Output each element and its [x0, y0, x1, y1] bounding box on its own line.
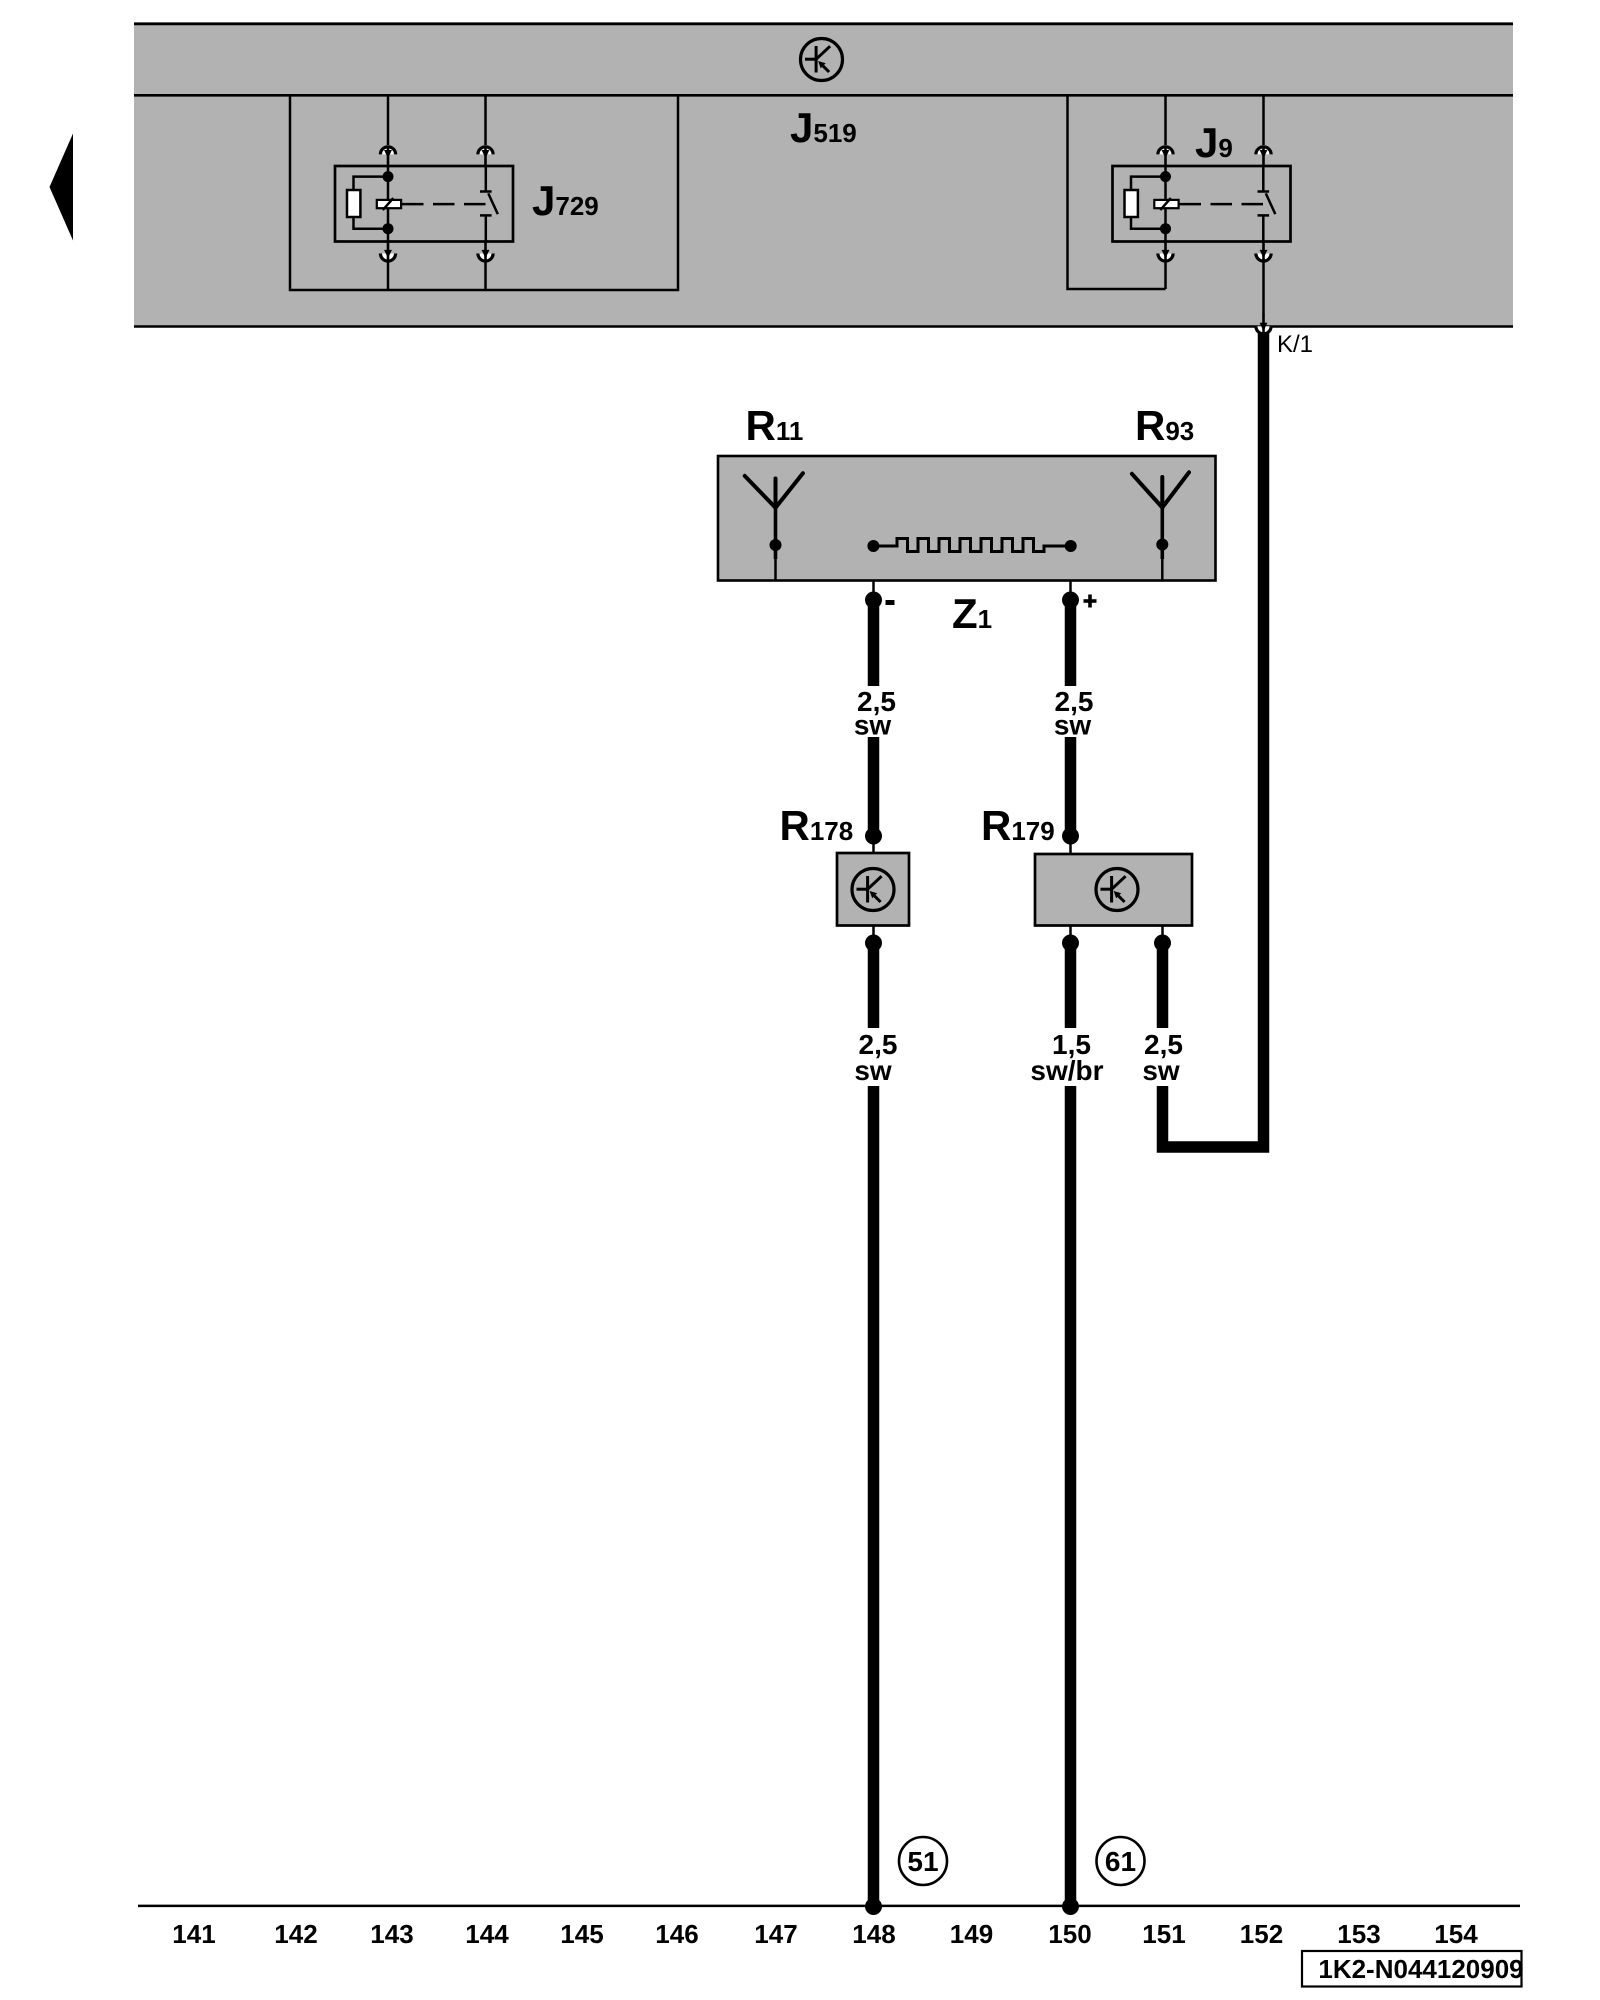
svg-text:sw: sw	[1142, 1055, 1180, 1086]
wire thick track150 upper	[1065, 943, 1077, 1028]
ground dot track 148	[865, 1898, 882, 1915]
connector J729 pin 1 top	[380, 147, 395, 165]
wire J729 pin 1 to sub-box bottom	[387, 262, 390, 290]
svg-text:153: 153	[1337, 1919, 1380, 1949]
svg-text:144: 144	[465, 1919, 509, 1949]
connector J9 pin 2 top	[1256, 147, 1271, 165]
photo sensor R179 grey box	[1035, 854, 1192, 926]
heated rear window Z1 grey box	[718, 456, 1216, 581]
connector J729 pin 1 bottom	[380, 242, 395, 262]
svg-text:146: 146	[655, 1919, 698, 1949]
svg-text:143: 143	[370, 1919, 413, 1949]
wire J729 pin 2 top	[484, 95, 487, 145]
terminal dot R179 top	[1062, 828, 1079, 845]
connector J9 pin 2 bottom	[1256, 242, 1271, 262]
svg-text:149: 149	[950, 1919, 993, 1949]
connector J9 pin 1 bottom	[1158, 242, 1173, 262]
J519 band top edge	[134, 22, 1513, 25]
terminal dot R178 top	[865, 828, 882, 845]
wire Z1 minus pin	[872, 581, 875, 597]
wire J9 pin 2 down to K/1	[1262, 262, 1265, 315]
svg-text:154: 154	[1434, 1919, 1478, 1949]
plus sign	[1084, 595, 1097, 608]
wire R178 top pin	[872, 840, 875, 853]
svg-text:sw: sw	[854, 710, 892, 741]
wire thick R179 right upper	[1157, 943, 1169, 1028]
wire thick track148 upper	[868, 943, 880, 1028]
connection symbol R178	[852, 869, 894, 911]
wire J729 pin 2 to sub-box bottom	[484, 262, 487, 290]
svg-text:152: 152	[1240, 1919, 1283, 1949]
wire J9 pin 1 to sub-box bottom	[1164, 262, 1167, 289]
terminal dot Z1 minus	[865, 592, 882, 609]
bottom current track rail	[138, 1905, 1520, 1908]
wire R178 bottom pin	[872, 926, 875, 941]
junction dot antenna R93	[1156, 539, 1168, 551]
wire J9 pin 2 top	[1262, 95, 1265, 145]
wire R179 bottom pin right	[1161, 926, 1164, 941]
svg-text:147: 147	[754, 1919, 797, 1949]
svg-text:151: 151	[1142, 1919, 1185, 1949]
relay J729	[335, 166, 513, 242]
svg-text:sw: sw	[1054, 710, 1092, 741]
wire J9 pin 1 top	[1164, 95, 1167, 145]
svg-text:61: 61	[1105, 1846, 1136, 1877]
current track circle 51	[899, 1837, 947, 1885]
relay J9	[1113, 166, 1291, 242]
current track circle 61	[1097, 1837, 1145, 1885]
wire thick K/1 down and left to R179	[1163, 333, 1264, 1148]
svg-text:141: 141	[172, 1919, 215, 1949]
connection symbol on J519	[801, 39, 843, 81]
svg-text:148: 148	[852, 1919, 895, 1949]
svg-text:145: 145	[560, 1919, 603, 1949]
wire thick Z1 minus upper segment	[868, 600, 880, 686]
wire J729 pin 1 top	[387, 95, 390, 145]
page-turn arrow left margin	[50, 134, 74, 241]
J519 band bottom edge	[134, 325, 1513, 328]
wire thick Z1 plus upper segment	[1065, 600, 1077, 686]
terminal dot R179 bottom right	[1154, 935, 1171, 952]
wire Z1 plus pin	[1069, 581, 1072, 597]
photo sensor R178 grey box	[837, 853, 909, 926]
connection symbol R179	[1096, 869, 1138, 911]
wire thick track148 long	[868, 1086, 880, 1906]
track numbers	[172, 1919, 1478, 1949]
terminal dot R179 bottom left	[1062, 935, 1079, 952]
wire thick Z1 minus lower segment	[868, 737, 880, 836]
wire R179 bottom pin left	[1069, 926, 1072, 941]
svg-text:1K2-N044120909: 1K2-N044120909	[1318, 1954, 1523, 1984]
svg-text:150: 150	[1048, 1919, 1091, 1949]
J519 inner bus line	[134, 94, 1513, 97]
junction dot Z1 right	[1065, 540, 1077, 552]
connector K/1 at band exit	[1256, 314, 1271, 334]
junction dot Z1 left	[867, 540, 879, 552]
wire thick track150 long	[1065, 1086, 1077, 1906]
wire thick Z1 plus lower segment	[1065, 737, 1077, 836]
antenna R11	[745, 473, 803, 508]
wire R179 top pin	[1069, 840, 1072, 854]
connector J729 pin 2 bottom	[478, 242, 493, 262]
svg-text:142: 142	[274, 1919, 317, 1949]
connector J729 pin 2 top	[478, 147, 493, 165]
heating element Z1 meander	[873, 539, 1070, 552]
relay J9 sub-box	[1068, 95, 1166, 289]
connector J9 pin 1 top	[1158, 147, 1173, 165]
ground dot track 150	[1062, 1898, 1079, 1915]
terminal dot R178 bottom	[865, 935, 882, 952]
terminal dot Z1 plus	[1062, 592, 1079, 609]
svg-text:K/1: K/1	[1277, 331, 1313, 358]
svg-text:51: 51	[907, 1846, 938, 1877]
antenna R93	[1132, 472, 1189, 507]
relay J729 sub-box	[290, 95, 678, 290]
svg-text:sw/br: sw/br	[1030, 1055, 1103, 1086]
diagram id box	[1302, 1951, 1522, 1987]
minus sign	[886, 600, 895, 605]
control unit J519 grey band	[134, 23, 1513, 326]
junction dot antenna R11	[770, 539, 782, 551]
svg-text:sw: sw	[854, 1055, 892, 1086]
